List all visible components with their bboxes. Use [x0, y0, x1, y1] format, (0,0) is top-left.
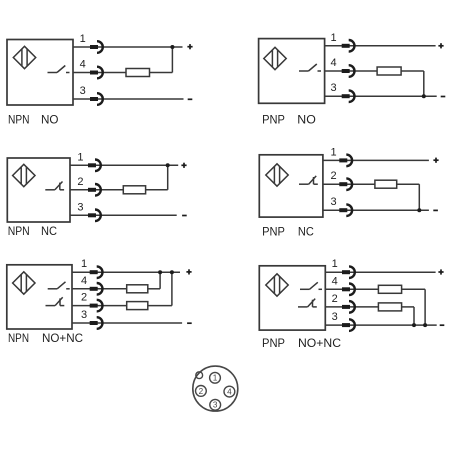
svg-text:NC: NC	[298, 225, 314, 239]
cable plug contact pin 3	[342, 319, 355, 331]
NC contact switch	[46, 297, 65, 305]
caption PNP NC	[262, 225, 314, 239]
caption PNP NO+NC	[262, 336, 341, 350]
svg-text:2: 2	[81, 292, 87, 304]
wire NO resistor to riser	[148, 288, 160, 290]
svg-text:NO: NO	[41, 112, 59, 126]
junction dot pin 2 dropper	[412, 323, 416, 327]
svg-text:1: 1	[331, 146, 337, 158]
connector pin 4	[224, 386, 235, 397]
cable plug contact pin 4	[90, 67, 103, 79]
+ supply terminal	[433, 158, 438, 163]
wire pin 2 to resistor	[70, 189, 123, 191]
wire pin 1 to + terminal	[70, 164, 178, 166]
svg-text:NPN: NPN	[8, 224, 30, 238]
svg-text:3: 3	[213, 401, 218, 410]
sensor body box (NPN NO+NC)	[7, 265, 72, 329]
NO contact switch	[300, 282, 322, 289]
load resistor on pin 2 (NC) output	[127, 302, 148, 310]
svg-text:NPN: NPN	[8, 112, 30, 126]
wire pin 1 to + terminal	[323, 159, 429, 161]
NO contact switch	[299, 64, 321, 71]
connector pin 3	[210, 399, 221, 410]
wire pin 4 to resistor	[325, 70, 378, 72]
svg-text:NO: NO	[297, 112, 316, 126]
caption NPN NC	[8, 224, 57, 238]
NO contact switch	[48, 66, 70, 73]
svg-text:1: 1	[81, 258, 87, 270]
cable plug contact pin 4	[342, 284, 355, 296]
svg-text:4: 4	[331, 57, 337, 69]
+ supply terminal	[187, 44, 192, 49]
proximity sensor symbol	[266, 274, 288, 296]
svg-text:2: 2	[77, 176, 83, 188]
wire resistor to junction riser	[146, 189, 168, 191]
svg-text:NO+NC: NO+NC	[42, 331, 83, 345]
svg-text:4: 4	[81, 275, 87, 287]
NC contact switch	[298, 299, 317, 307]
- supply terminal	[433, 209, 438, 211]
wire NO resistor to dropper	[402, 288, 426, 290]
- supply terminal	[188, 98, 193, 100]
svg-text:1: 1	[213, 374, 218, 383]
cable plug contact pin 3	[339, 204, 352, 216]
wire riser to junction on pin 1 line	[167, 165, 169, 190]
svg-text:1: 1	[331, 32, 337, 44]
wire riser pin 2 to junction on pin 1	[171, 272, 173, 305]
- supply terminal	[440, 324, 445, 326]
svg-text:PNP: PNP	[262, 225, 285, 239]
svg-text:3: 3	[332, 311, 338, 323]
svg-text:4: 4	[332, 275, 338, 287]
wire pin 1 to + terminal	[73, 46, 183, 48]
NC contact switch	[45, 182, 64, 190]
cable plug contact pin 3	[90, 93, 103, 105]
proximity sensor symbol	[13, 46, 35, 68]
proximity sensor symbol	[264, 47, 286, 69]
wire riser to junction on pin 1 line	[171, 47, 173, 73]
wire dropper pin 2 to junction on pin 3	[413, 307, 415, 325]
svg-text:NO+NC: NO+NC	[298, 336, 341, 350]
- supply terminal	[187, 322, 192, 324]
wire pin 3 to - terminal	[323, 209, 429, 211]
M12 connector face outline	[193, 366, 238, 411]
wire pin 1 to + terminal	[325, 271, 435, 273]
keyway notch	[196, 372, 203, 379]
svg-text:1: 1	[77, 151, 83, 163]
cable plug contact pin 2	[342, 301, 355, 313]
wire dropper pin 4 to junction on pin 3	[424, 289, 426, 325]
cable plug contact pin 1	[342, 266, 355, 278]
svg-text:3: 3	[77, 201, 83, 213]
svg-text:1: 1	[332, 258, 338, 270]
svg-text:NC: NC	[41, 224, 57, 238]
wire pin 3 to - terminal	[72, 322, 182, 324]
svg-text:NPN: NPN	[8, 331, 29, 345]
load resistor on pin 4 (NO) output	[378, 285, 401, 293]
wire pin 3 to - terminal	[325, 95, 437, 97]
sensor body box (PNP NO)	[259, 39, 325, 104]
wire resistor to dropper	[397, 183, 420, 185]
sensor body box (PNP NO+NC)	[259, 266, 325, 330]
wire pin 3 to - terminal	[325, 324, 436, 326]
sensor body box (NPN NO)	[7, 40, 73, 106]
+ supply terminal	[438, 43, 443, 48]
svg-text:3: 3	[81, 309, 87, 321]
junction dot pin 2 riser	[170, 270, 174, 274]
wire NC resistor to dropper	[402, 306, 414, 308]
load resistor on pin 2 output	[375, 180, 397, 188]
svg-text:4: 4	[227, 388, 232, 397]
svg-text:2: 2	[332, 293, 338, 305]
load resistor on pin 4 (NO) output	[127, 285, 148, 293]
junction dot on pin 1 line	[166, 163, 170, 167]
proximity sensor symbol	[13, 164, 35, 186]
wire pin 4 to NO resistor	[325, 288, 378, 290]
load resistor on pin 4 output	[377, 67, 401, 75]
wire NC resistor to riser	[148, 305, 172, 307]
NO contact switch	[48, 282, 70, 289]
cable plug contact pin 1	[90, 266, 103, 278]
wire resistor to dropper	[401, 70, 424, 72]
cable plug contact pin 4	[342, 65, 355, 77]
proximity sensor symbol	[266, 164, 288, 186]
connector pin 2	[196, 386, 207, 397]
wire pin 1 to + terminal	[325, 45, 436, 47]
cable plug contact pin 2	[90, 300, 103, 312]
junction dot pin 4 riser	[158, 270, 162, 274]
wire pin 3 to - terminal	[70, 214, 177, 216]
wire pin 2 to NC resistor	[72, 305, 127, 307]
wire dropper to junction on pin 3 line	[418, 184, 420, 210]
svg-text:2: 2	[331, 170, 337, 182]
- supply terminal	[182, 215, 187, 217]
svg-text:2: 2	[199, 387, 204, 396]
load resistor on pin 2 output	[123, 186, 145, 194]
- supply terminal	[441, 96, 446, 98]
svg-text:PNP: PNP	[262, 336, 285, 350]
svg-text:3: 3	[331, 82, 337, 94]
wire pin 4 to NO resistor	[72, 288, 127, 290]
cable plug contact pin 4	[90, 283, 103, 295]
proximity sensor symbol	[13, 272, 35, 294]
cable plug contact pin 3	[342, 90, 355, 102]
wire riser pin 4 to junction on pin 1	[159, 272, 161, 289]
+ supply terminal	[181, 163, 186, 168]
wire dropper to junction on pin 3 line	[423, 71, 425, 96]
cable plug contact pin 1	[342, 40, 355, 52]
caption PNP NO	[262, 112, 316, 126]
caption NPN NO	[8, 112, 59, 126]
cable plug contact pin 3	[88, 210, 101, 222]
wire pin 2 to NC resistor	[325, 306, 378, 308]
caption NPN NO+NC	[8, 331, 83, 345]
sensor body box (PNP NC)	[259, 155, 323, 217]
wire pin 4 to resistor	[73, 72, 126, 74]
cable plug contact pin 1	[339, 155, 352, 167]
cable plug contact pin 2	[339, 178, 352, 190]
junction dot on pin 1 line	[170, 45, 174, 49]
+ supply terminal	[438, 269, 443, 274]
load resistor on pin 2 (NC) output	[378, 303, 401, 311]
+ supply terminal	[186, 269, 191, 274]
svg-text:4: 4	[80, 59, 86, 71]
svg-text:PNP: PNP	[262, 112, 285, 126]
junction dot pin 4 dropper	[423, 323, 427, 327]
NC contact switch	[299, 176, 318, 184]
load resistor on pin 4 output	[126, 69, 150, 77]
junction dot on pin 3 line	[417, 208, 421, 212]
cable plug contact pin 2	[88, 184, 101, 196]
wire pin 1 to + terminal	[72, 271, 180, 273]
wire pin 2 to resistor	[323, 183, 375, 185]
svg-text:3: 3	[80, 85, 86, 97]
cable plug contact pin 1	[88, 160, 101, 172]
wire resistor to junction riser	[150, 72, 173, 74]
svg-text:3: 3	[331, 196, 337, 208]
wire pin 3 to - terminal	[73, 98, 184, 100]
connector pin 1	[210, 372, 221, 383]
sensor body box (NPN NC)	[7, 158, 70, 222]
cable plug contact pin 1	[90, 41, 103, 53]
cable plug contact pin 3	[90, 317, 103, 329]
junction dot on pin 3 line	[422, 94, 426, 98]
svg-text:1: 1	[80, 33, 86, 45]
